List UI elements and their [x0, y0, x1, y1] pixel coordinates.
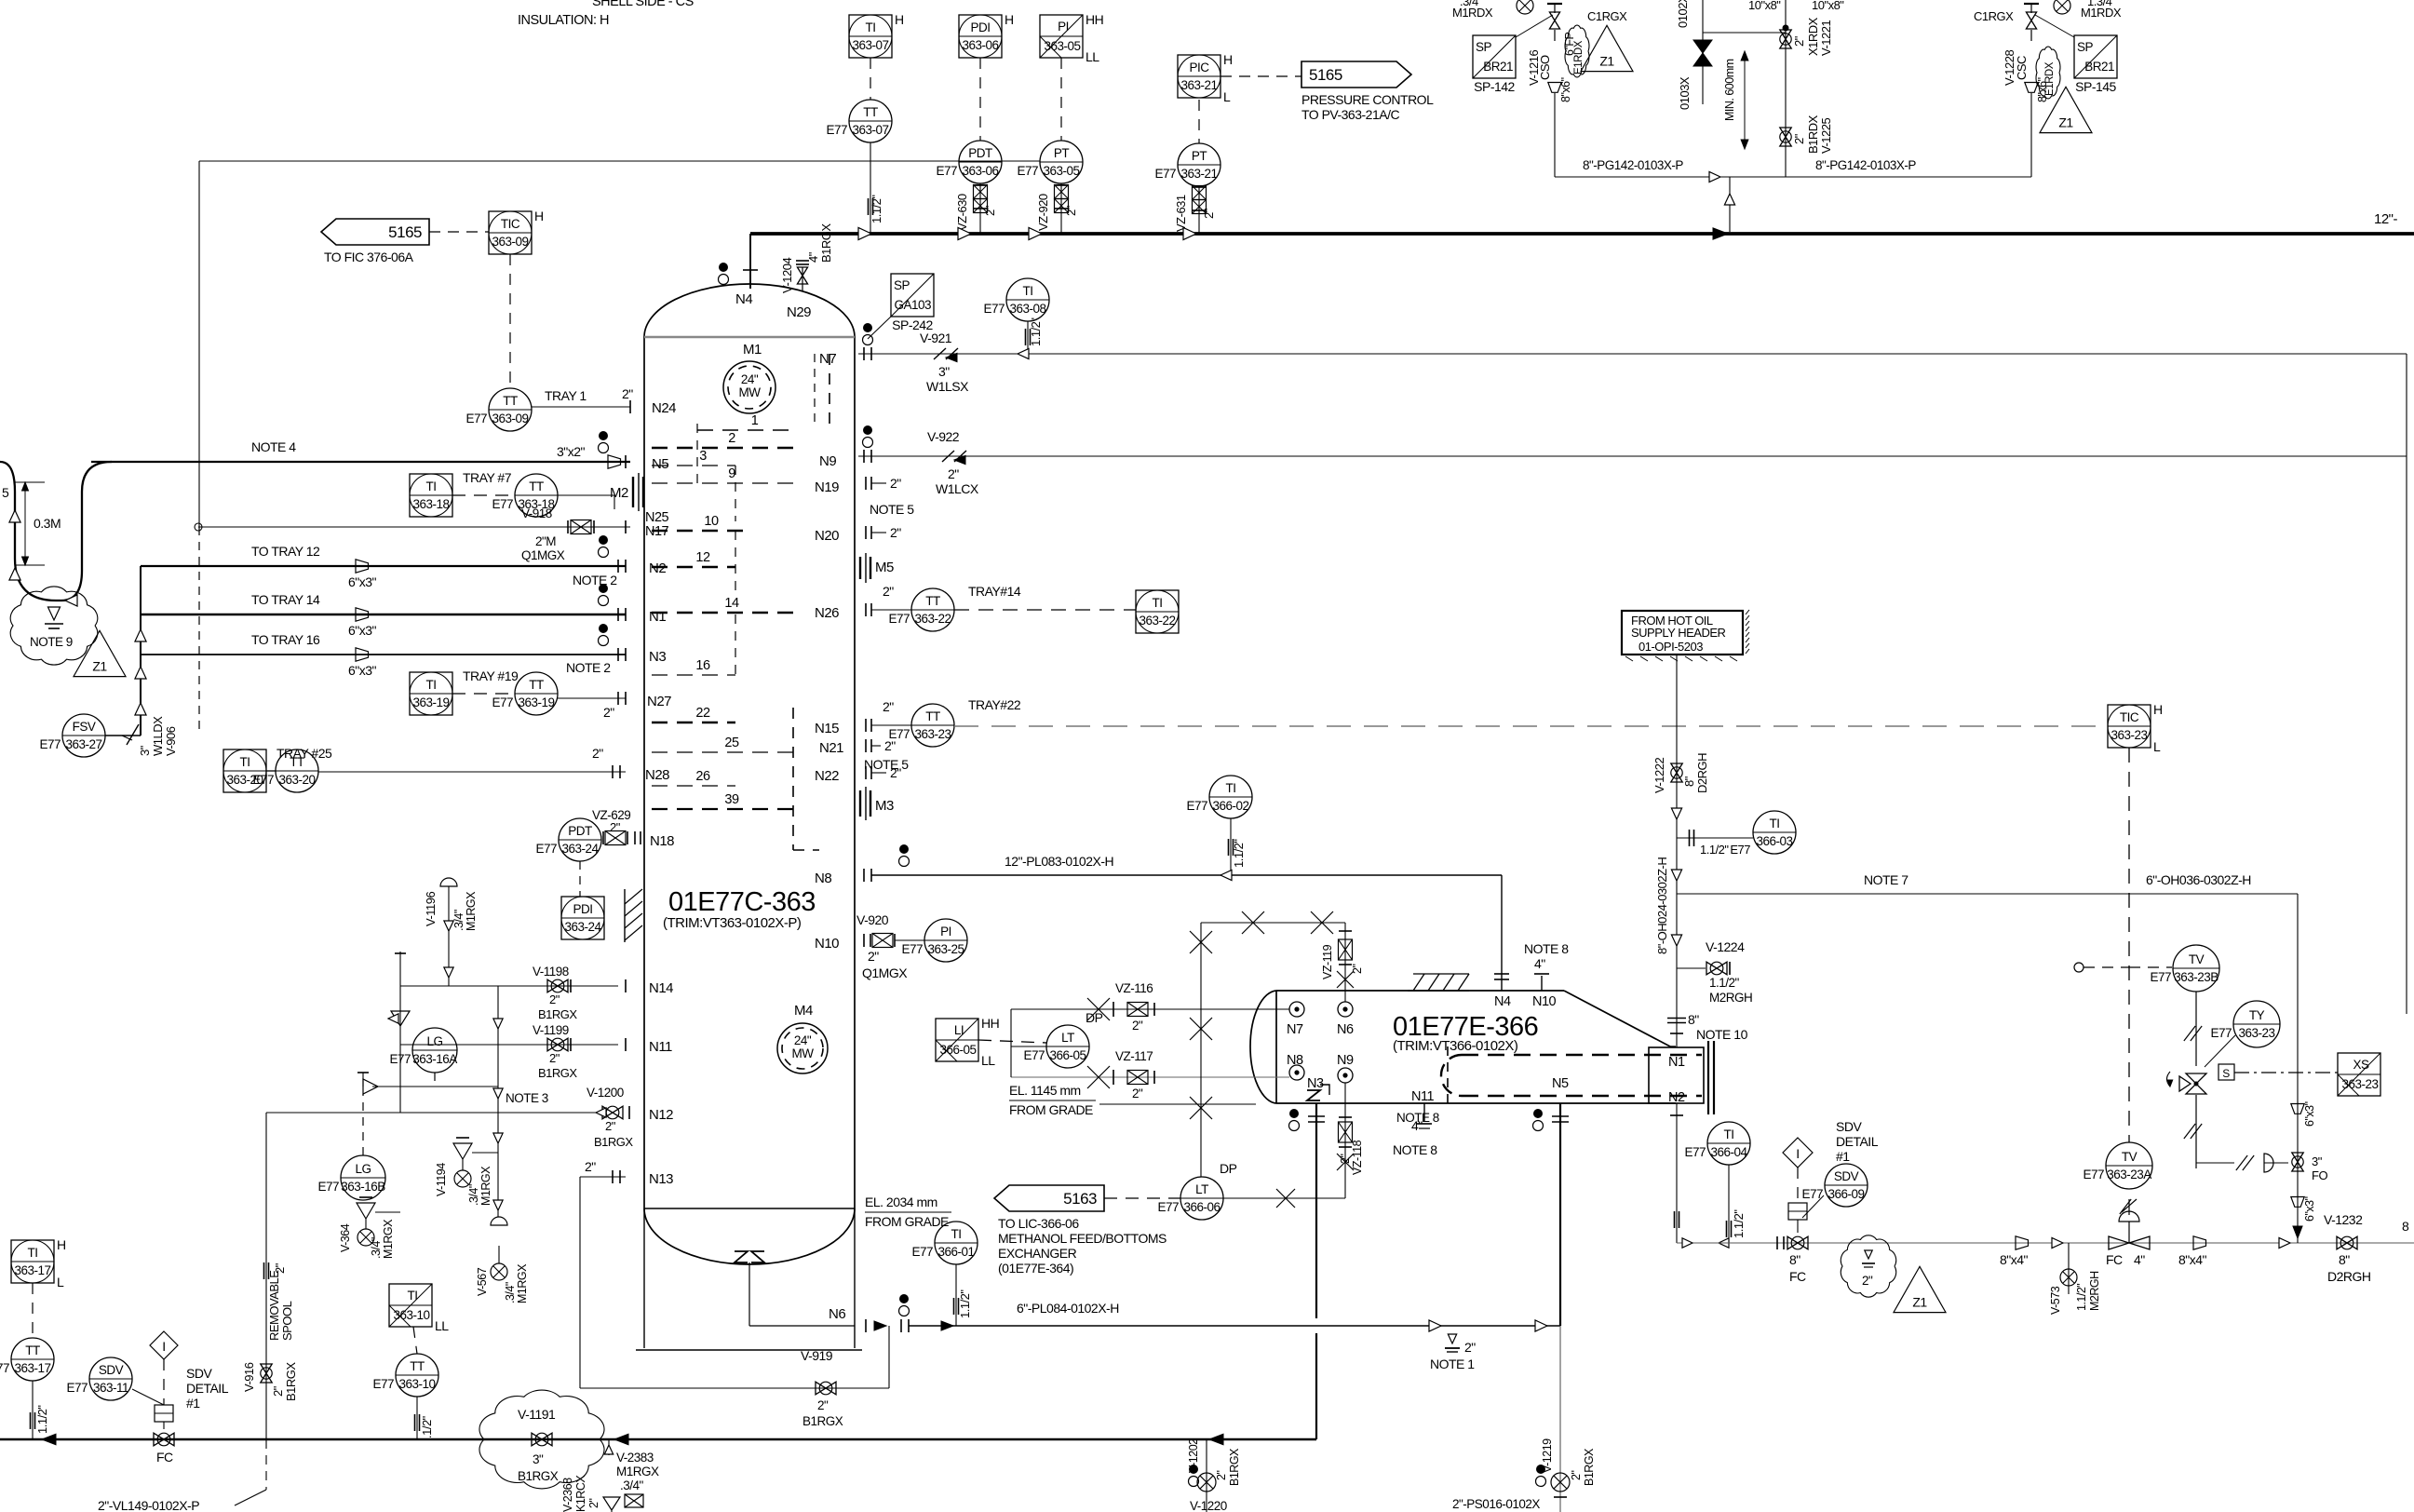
svg-text:PI: PI	[940, 925, 951, 938]
tap TT363-10	[416, 1397, 418, 1439]
manway M3	[859, 790, 861, 817]
arrow bottom b	[614, 1434, 628, 1445]
signal TT to TI 363-22	[954, 609, 1136, 611]
svg-text:1.3/4": 1.3/4"	[2087, 0, 2116, 8]
svg-text:Q1MGX: Q1MGX	[862, 965, 908, 980]
svg-text:363-18: 363-18	[412, 497, 449, 511]
vessel nozzle box N1N2	[1649, 1047, 1704, 1103]
svg-text:E77: E77	[1017, 164, 1038, 178]
svg-text:PDT: PDT	[968, 146, 992, 160]
flag 5163	[994, 1185, 1104, 1211]
svg-text:FO: FO	[2312, 1168, 2327, 1182]
svg-text:0103X: 0103X	[1678, 76, 1692, 110]
svg-text:39: 39	[724, 792, 739, 807]
svg-text:Z1: Z1	[1912, 1295, 1927, 1310]
svg-text:N11: N11	[1411, 1089, 1434, 1104]
svg-text:MW: MW	[792, 1046, 815, 1060]
svg-text:NOTE 2: NOTE 2	[566, 660, 611, 675]
svg-text:TIC: TIC	[501, 217, 520, 231]
vessel N3 check	[1307, 1090, 1320, 1100]
cap N2 line	[1674, 1211, 1676, 1228]
dim 0.3M	[24, 482, 26, 565]
svg-text:366-09: 366-09	[1827, 1187, 1864, 1201]
instrument TI 363-08	[983, 278, 1049, 321]
signal 5165 to TIC	[429, 231, 489, 233]
svg-text:2": 2"	[1132, 1019, 1143, 1033]
svg-text:V-1222: V-1222	[1652, 758, 1666, 793]
valve V-906	[127, 724, 139, 745]
svg-text:10: 10	[704, 514, 719, 529]
svg-text:2": 2"	[1215, 1471, 1228, 1480]
valve VZ-630	[979, 183, 981, 234]
svg-text:(01E77E-364): (01E77E-364)	[998, 1261, 1073, 1276]
svg-text:M1: M1	[743, 342, 762, 358]
svg-text:FC: FC	[156, 1450, 173, 1465]
arrow bottom a	[42, 1434, 56, 1445]
instrument TI 363-07 (board)	[849, 12, 904, 58]
svg-text:V-916: V-916	[242, 1362, 256, 1392]
svg-text:N1: N1	[1668, 1055, 1685, 1070]
line N5 drop	[1559, 1103, 1561, 1326]
svg-text:PIC: PIC	[1189, 61, 1209, 74]
line manifold jog	[1703, 32, 1786, 34]
arrow return a	[2052, 1237, 2063, 1248]
svg-text:TI: TI	[1153, 596, 1163, 610]
svg-text:9: 9	[728, 466, 735, 481]
V-919 loop left	[579, 1177, 581, 1388]
svg-text:TI: TI	[951, 1227, 962, 1241]
line V-918 impulse	[198, 526, 630, 528]
svg-text:VZ-630: VZ-630	[955, 194, 969, 231]
dash I to sdv valve	[1797, 1168, 1799, 1203]
line psv outlet right	[2030, 93, 2032, 177]
sdv actuator box	[1788, 1203, 1807, 1220]
svg-text:2": 2"	[587, 1499, 600, 1508]
halfdome fo	[2264, 1154, 2273, 1172]
svg-text:363-23: 363-23	[914, 727, 951, 741]
svg-text:8"-PG142-0103X-P: 8"-PG142-0103X-P	[1583, 158, 1683, 172]
svg-text:2": 2"	[622, 386, 633, 401]
svg-text:2": 2"	[890, 525, 901, 540]
line TO TRAY 16	[141, 654, 626, 655]
svg-text:V-1232: V-1232	[2324, 1212, 2363, 1227]
svg-text:363-08: 363-08	[1009, 302, 1045, 316]
svg-text:LG: LG	[426, 1034, 442, 1048]
svg-text:SP: SP	[2077, 40, 2094, 54]
tray 10	[652, 530, 752, 533]
instrument TI 363-22 (board)	[1136, 590, 1179, 633]
instrument PDI 363-24 (board)	[561, 897, 604, 939]
svg-text:M5: M5	[875, 560, 894, 575]
svg-text:M4: M4	[794, 1003, 813, 1019]
arrow PL084 b	[1535, 1320, 1547, 1331]
line TT363-20 to N28	[318, 771, 626, 773]
svg-text:E77: E77	[2150, 970, 2171, 984]
svg-text:2": 2"	[884, 738, 896, 753]
svg-text:H: H	[2153, 702, 2163, 717]
svg-text:TI: TI	[240, 755, 250, 769]
instrument TT 363-20	[252, 749, 318, 792]
svg-text:01E77C-363: 01E77C-363	[668, 887, 816, 917]
svg-text:NOTE 3: NOTE 3	[506, 1091, 548, 1105]
svg-text:363-10: 363-10	[393, 1308, 429, 1322]
svg-text:H: H	[1223, 52, 1233, 67]
svg-text:1.1/2": 1.1/2"	[35, 1405, 49, 1434]
svg-text:6"x3": 6"x3"	[2303, 1101, 2316, 1127]
valve X1RDX V-1221	[1780, 30, 1791, 48]
vortex breaker	[735, 1251, 748, 1262]
tray dash bottom elbow	[793, 849, 819, 851]
tray downcomer dash e	[792, 708, 794, 850]
line fo link	[2196, 1162, 2234, 1164]
svg-text:HH: HH	[1086, 12, 1103, 27]
tap TI 366-03	[1677, 837, 1753, 839]
svg-text:8": 8"	[1688, 1012, 1699, 1027]
instrument TY 363-23	[2210, 1001, 2280, 1047]
svg-text:B1RGX: B1RGX	[518, 1469, 559, 1483]
svg-text:SP: SP	[1476, 40, 1492, 54]
svg-text:SDV: SDV	[99, 1363, 124, 1377]
flag 5165 pressure control	[1301, 61, 1411, 88]
line psv outlet left	[1554, 93, 1556, 177]
svg-text:S: S	[2222, 1067, 2230, 1080]
drain note1	[1448, 1334, 1456, 1343]
svg-text:HH: HH	[981, 1016, 999, 1031]
valve V-1196 cap	[440, 878, 457, 886]
svg-text:V-920: V-920	[856, 912, 889, 927]
svg-text:12: 12	[695, 550, 710, 565]
svg-text:FC: FC	[2106, 1252, 2123, 1267]
svg-text:TI: TI	[866, 20, 876, 34]
svg-text:1.1/2": 1.1/2"	[958, 1289, 972, 1318]
svg-text:2": 2"	[585, 1159, 596, 1174]
svg-text:363-21: 363-21	[1180, 167, 1217, 181]
valve V-916	[261, 1364, 272, 1383]
arrow solid on 12in line	[1713, 228, 1728, 239]
svg-text:2": 2"	[1064, 205, 1078, 216]
svg-text:NOTE 8: NOTE 8	[1393, 1142, 1437, 1157]
column top tangent	[644, 336, 855, 339]
svg-text:V-1199: V-1199	[533, 1023, 569, 1037]
svg-text:2": 2"	[549, 1051, 560, 1065]
svg-text:XS: XS	[2353, 1058, 2369, 1072]
svg-text:E77: E77	[372, 1377, 394, 1391]
svg-text:E77: E77	[1154, 167, 1176, 181]
svg-text:V-1204: V-1204	[780, 258, 794, 293]
svg-text:366-02: 366-02	[1212, 799, 1248, 813]
stub V-1202	[1206, 1439, 1207, 1512]
line TT363-19 to N27	[557, 697, 626, 699]
line lg drops	[497, 986, 499, 1215]
line TO TRAY 14	[141, 614, 626, 616]
svg-text:PDI: PDI	[573, 902, 592, 916]
svg-text:E77: E77	[983, 302, 1005, 316]
svg-text:E77: E77	[911, 1245, 933, 1259]
nozzle N24	[629, 400, 631, 413]
tray 26	[652, 785, 735, 787]
valve V-567	[491, 1217, 507, 1225]
reducer 6x3 t12	[356, 560, 369, 573]
svg-text:VZ-119: VZ-119	[1321, 944, 1334, 979]
svg-text:3": 3"	[533, 1452, 544, 1466]
valve V-922	[942, 451, 966, 462]
port circle	[2074, 963, 2084, 972]
svg-text:TT: TT	[529, 678, 544, 692]
svg-text:1: 1	[751, 413, 759, 428]
svg-text:BR21: BR21	[2084, 60, 2114, 74]
instrument TV 363-23B	[2150, 945, 2219, 992]
svg-text:V-2383: V-2383	[616, 1451, 654, 1465]
vessel cone	[1564, 991, 1670, 1046]
tray 12	[652, 566, 735, 569]
svg-text:X1RDX: X1RDX	[1806, 17, 1820, 56]
svg-text:TRAY #19: TRAY #19	[463, 668, 519, 683]
svg-text:CSC: CSC	[2015, 56, 2029, 80]
svg-text:V-573: V-573	[2049, 1286, 2062, 1315]
column base line	[636, 1349, 862, 1351]
instrument TT 363-10	[372, 1354, 438, 1397]
instrument TT 363-23	[888, 704, 954, 747]
svg-text:TT: TT	[503, 394, 518, 408]
line TVB down	[2195, 992, 2197, 1066]
svg-text:V-1191: V-1191	[518, 1407, 556, 1422]
svg-text:PDT: PDT	[568, 824, 592, 838]
vessel baffle dash	[1447, 1046, 1449, 1103]
svg-text:NOTE 2: NOTE 2	[573, 573, 617, 587]
svg-text:2": 2"	[603, 705, 614, 720]
svg-text:8"-PG142-0103X-P: 8"-PG142-0103X-P	[1815, 158, 1916, 172]
valve small right psv	[2054, 0, 2070, 14]
svg-text:24": 24"	[741, 372, 759, 386]
tap TT363-07	[870, 142, 871, 234]
svg-text:FROM GRADE: FROM GRADE	[865, 1214, 949, 1229]
feed U-loop	[90, 461, 92, 463]
valve V-1232	[2337, 1236, 2357, 1249]
svg-text:E77: E77	[317, 1180, 339, 1194]
flange 8 note10	[1667, 1018, 1686, 1019]
svg-text:8: 8	[2402, 1219, 2409, 1234]
svg-text:10"x8": 10"x8"	[1748, 0, 1781, 12]
svg-text:LL: LL	[981, 1053, 995, 1068]
svg-text:363-22: 363-22	[914, 612, 951, 626]
svg-text:363-23: 363-23	[2111, 728, 2147, 742]
svg-text:363-11: 363-11	[93, 1381, 128, 1395]
signal TI-TT 363-10	[413, 1327, 417, 1354]
tray feed dash N7	[829, 354, 830, 428]
svg-text:N29: N29	[787, 304, 811, 320]
bridle top line	[1201, 922, 1345, 924]
svg-text:#1: #1	[1836, 1149, 1850, 1164]
reducer psv right	[2025, 83, 2038, 93]
instrument PIC 363-21 (board)	[1178, 52, 1233, 104]
svg-text:B1RGX: B1RGX	[1228, 1448, 1241, 1486]
triangle Z1 left psv	[1581, 25, 1633, 71]
signal PDI to PDT	[979, 58, 981, 141]
triangle Z1 left	[74, 630, 126, 676]
line V-1199	[400, 1044, 618, 1046]
svg-text:TT: TT	[925, 709, 940, 723]
svg-text:E77: E77	[0, 1361, 9, 1375]
svg-text:SP: SP	[894, 278, 910, 292]
vessel internal tube dash	[1462, 1054, 1702, 1056]
psv V-1216	[1547, 4, 1562, 41]
svg-text:PRESSURE CONTROL: PRESSURE CONTROL	[1301, 92, 1434, 107]
svg-text:E77: E77	[901, 942, 923, 956]
svg-text:E77: E77	[252, 773, 274, 787]
instrument PDI 363-06 (board)	[959, 12, 1014, 58]
psv V-1228	[2024, 4, 2039, 41]
svg-text:FC: FC	[1789, 1269, 1806, 1284]
box from hot oil	[1622, 611, 1743, 655]
svg-text:1.1/2": 1.1/2"	[1732, 1209, 1746, 1238]
svg-text:H: H	[895, 12, 904, 27]
svg-text:E77: E77	[465, 412, 487, 425]
instrument TT 363-17	[0, 1338, 54, 1381]
svg-text:L: L	[1223, 89, 1231, 104]
interlock diamond	[150, 1331, 178, 1359]
svg-text:N10: N10	[815, 936, 839, 952]
impulse line drop left	[198, 161, 200, 527]
svg-text:363-19: 363-19	[518, 695, 554, 709]
instrument TT 363-07	[826, 100, 892, 142]
svg-text:V-1221: V-1221	[1819, 20, 1833, 56]
svg-text:BR21: BR21	[1483, 60, 1513, 74]
leader SDV detail1	[132, 1389, 164, 1405]
vent t12	[599, 535, 608, 545]
valve V-1198	[547, 979, 568, 992]
svg-text:E77: E77	[492, 695, 513, 709]
svg-text:SUPPLY HEADER: SUPPLY HEADER	[1631, 626, 1726, 640]
signal LI-LT	[978, 1040, 1046, 1043]
line 6-PL084	[909, 1325, 1560, 1327]
svg-text:TT: TT	[290, 755, 304, 769]
svg-text:2": 2"	[817, 1398, 829, 1412]
svg-text:N17: N17	[645, 524, 669, 539]
svg-text:TI: TI	[426, 479, 437, 493]
svg-text:PDI: PDI	[970, 20, 990, 34]
triangle Z1 bottom	[1894, 1266, 1946, 1312]
svg-text:5165: 5165	[388, 223, 422, 241]
svg-text:2": 2"	[1792, 133, 1806, 144]
svg-text:N15: N15	[815, 721, 839, 736]
vessel shell	[1276, 990, 1564, 992]
svg-text:.3/4": .3/4"	[1460, 0, 1483, 8]
svg-text:B1RGX: B1RGX	[538, 1007, 577, 1021]
column bottom tangent	[644, 1208, 855, 1209]
feed u-turn	[0, 462, 56, 601]
svg-text:TO TRAY 14: TO TRAY 14	[251, 592, 320, 607]
svg-text:REMOVABLE: REMOVABLE	[267, 1270, 281, 1341]
tray 3	[652, 465, 735, 466]
svg-text:I: I	[162, 1339, 165, 1354]
svg-text:N24: N24	[652, 400, 676, 416]
leader SP-242	[868, 317, 891, 339]
nozzle N9 dash inside	[814, 354, 816, 424]
svg-text:TRAY#22: TRAY#22	[968, 697, 1021, 712]
svg-text:Z1: Z1	[1599, 54, 1614, 69]
svg-text:N19: N19	[815, 479, 839, 495]
manway M2	[632, 477, 634, 507]
instrument PI 363-05 (board)	[1040, 12, 1103, 64]
svg-text:1.1/2": 1.1/2"	[1700, 843, 1729, 857]
valve V-1204 vent	[802, 267, 803, 290]
line V-916 spool	[265, 1113, 267, 1439]
signal TI-TT 363-19	[452, 693, 515, 695]
svg-text:363-21: 363-21	[1180, 78, 1217, 92]
svg-text:NOTE 7: NOTE 7	[1864, 872, 1908, 887]
svg-text:0.3M: 0.3M	[34, 516, 61, 531]
signal TIC to TT 363-09	[509, 254, 511, 389]
svg-text:14: 14	[724, 596, 739, 611]
line el1145	[1099, 1103, 1256, 1105]
svg-text:24": 24"	[794, 1033, 812, 1047]
line N5 drain v1219	[1559, 1326, 1561, 1512]
nozzle N5 reducer	[608, 455, 621, 468]
svg-text:E77: E77	[888, 612, 910, 626]
line PL083 drop to N4 vessel	[1501, 875, 1503, 991]
line VZ-116	[1011, 1008, 1289, 1010]
svg-text:(TRIM:VT363-0102X-P): (TRIM:VT363-0102X-P)	[663, 915, 802, 931]
flag 5165 to FIC	[321, 219, 429, 245]
instrument TT 363-22	[888, 588, 954, 631]
svg-text:M2: M2	[610, 485, 628, 501]
svg-text:363-06: 363-06	[962, 38, 998, 52]
svg-text:M1RGX: M1RGX	[465, 891, 478, 931]
svg-text:8": 8"	[2339, 1252, 2350, 1267]
manway M5	[859, 557, 861, 579]
valve V-921 line break	[934, 348, 958, 359]
line riser from N4	[749, 234, 751, 267]
svg-text:SP-145: SP-145	[2075, 79, 2116, 94]
svg-text:4": 4"	[1534, 956, 1545, 971]
svg-text:B1RDX: B1RDX	[1806, 115, 1820, 154]
svg-text:V-1200: V-1200	[587, 1086, 624, 1100]
svg-text:K1RCX: K1RCX	[574, 1475, 587, 1512]
feed bend down	[56, 462, 112, 601]
svg-text:TY: TY	[2249, 1008, 2265, 1022]
tray 22	[652, 722, 735, 724]
valve VZ-116	[1087, 998, 1110, 1020]
svg-text:H: H	[57, 1237, 66, 1252]
svg-text:FSV: FSV	[73, 720, 96, 734]
svg-text:E77: E77	[826, 123, 847, 137]
svg-text:MIN. 600mm: MIN. 600mm	[1723, 59, 1736, 121]
stub V-573	[2068, 1243, 2070, 1294]
valve V-1222	[1671, 763, 1682, 782]
arrow PL084 a	[941, 1321, 953, 1330]
svg-text:V-1225: V-1225	[1819, 118, 1833, 154]
line TT363-09 to N24	[532, 406, 630, 408]
svg-text:8"x4": 8"x4"	[2000, 1252, 2029, 1267]
svg-text:E77: E77	[2083, 1168, 2104, 1181]
svg-text:.3/4": .3/4"	[504, 1282, 517, 1303]
svg-text:TT: TT	[25, 1343, 40, 1357]
support hatch column	[624, 889, 626, 942]
svg-text:363-25: 363-25	[927, 942, 964, 956]
svg-text:H: H	[534, 209, 544, 223]
arrow noteline	[1671, 870, 1681, 881]
line hot oil return	[1677, 1242, 2414, 1244]
svg-text:LT: LT	[1195, 1182, 1208, 1196]
svg-text:I: I	[1796, 1146, 1799, 1161]
svg-text:12"-: 12"-	[2374, 211, 2398, 227]
instrument PT 363-21	[1154, 143, 1220, 186]
bridle vertical	[1200, 923, 1202, 1177]
line N9	[858, 455, 2407, 457]
svg-text:TIC: TIC	[2120, 710, 2139, 724]
svg-text:CSO: CSO	[1538, 55, 1552, 80]
interlock diamond right	[1783, 1138, 1813, 1168]
